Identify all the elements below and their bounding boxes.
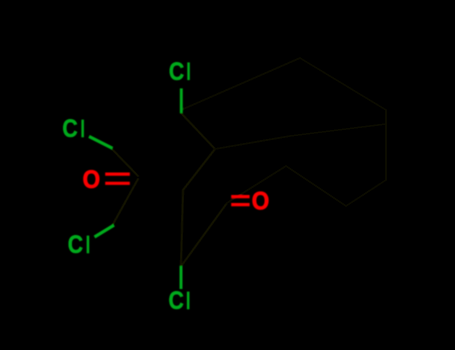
svg-text:C: C bbox=[68, 231, 83, 259]
bond C-Cl bottom (green) bbox=[180, 266, 183, 289]
wire C7-C8 bbox=[183, 149, 215, 190]
bond C-Cl top (green) bbox=[180, 88, 183, 113]
bond C-Cl lower left (green) bbox=[95, 225, 115, 237]
atom label Cl lower left bbox=[68, 231, 90, 259]
double bond C=O left (red) bbox=[105, 174, 130, 183]
wire bridge left flank C1-C7' bbox=[181, 58, 300, 110]
wire ring C3'-C4' bbox=[385, 110, 387, 180]
wire C(bottom Cl)-C(=O right) bbox=[182, 203, 227, 265]
wire ring C5'-C1' bbox=[286, 166, 346, 206]
svg-text:C: C bbox=[169, 58, 184, 86]
wire C(=O left)-C(lower Cl) bbox=[112, 179, 138, 226]
bond C-Cl upper left (green) bbox=[89, 136, 113, 148]
double bond C=O right (red) bbox=[231, 197, 249, 205]
svg-text:C: C bbox=[62, 115, 77, 143]
atom label Cl top bbox=[169, 58, 190, 86]
svg-text:C: C bbox=[169, 287, 184, 315]
wire bridge right flank C7'-C3' bbox=[300, 58, 386, 110]
carbon skeleton (very dark olive) bbox=[111, 113, 227, 265]
atom label Cl bottom bbox=[169, 287, 190, 315]
atom label Cl upper left bbox=[62, 115, 84, 143]
svg-text:O: O bbox=[252, 187, 270, 215]
wire C(upper Cl)-C(=O left) bbox=[111, 148, 138, 176]
svg-text:O: O bbox=[83, 166, 101, 194]
wire ring C4'-C5' bbox=[346, 180, 386, 206]
wire ketone C - ring C1' bbox=[227, 166, 286, 203]
wire C1-C7 bridge bbox=[181, 113, 215, 149]
wire C8-C(bottom Cl) bbox=[181, 190, 183, 265]
wire long crossing bond (near half) bbox=[215, 136, 290, 149]
wire long crossing bond (far half) bbox=[290, 124, 386, 136]
